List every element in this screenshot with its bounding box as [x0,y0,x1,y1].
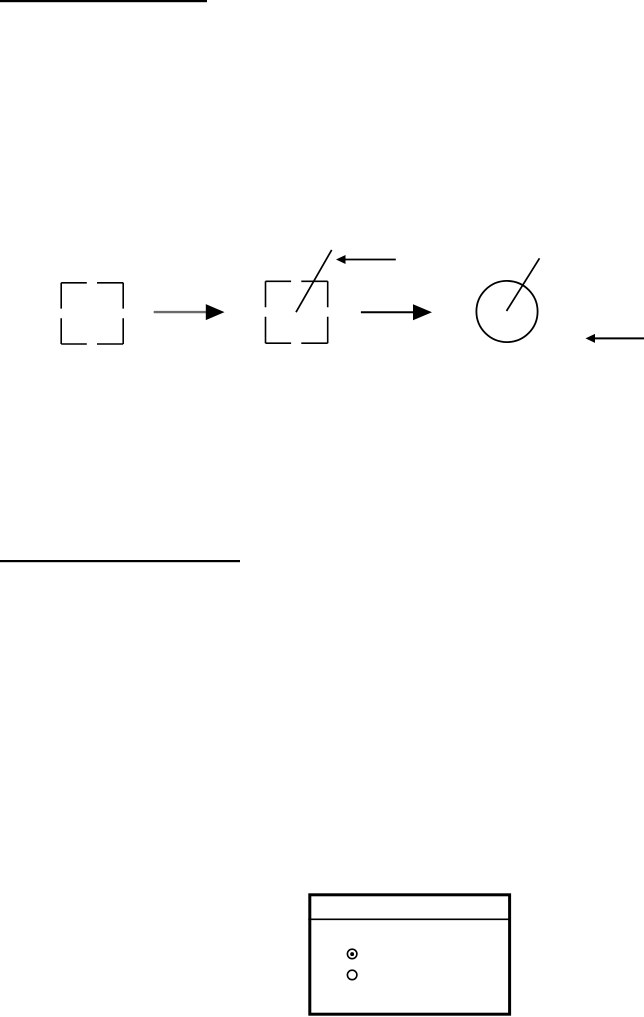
circle (gesture target) [476,281,537,342]
flow arrow 1 (square 1 to square 2) [154,304,225,320]
callout arrow from right edge pointing left [586,334,644,343]
heading rule (top, cut off at page top) [0,0,207,2]
callout arrow pointing at slash of square 2 [336,255,396,264]
dashed square 2 [266,281,328,343]
flow arrow 2 (square 2 to circle) [361,304,432,320]
radio button 1 (selected) [347,949,357,959]
pen-stroke slash over circle [507,258,540,311]
radio button 2 (unselected) [347,970,357,980]
pen-stroke slash over square 2 [296,250,332,312]
section rule (middle left) [0,560,240,562]
dialog title-bar divider [308,918,511,920]
dialog box outline [310,895,510,1014]
dashed square 1 [61,283,123,344]
